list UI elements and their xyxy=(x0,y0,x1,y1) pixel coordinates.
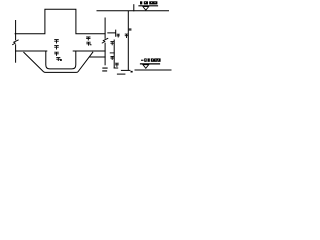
node: inner dimension foot tick xyxy=(114,67,118,69)
node: outer dimension foot dot xyxy=(131,70,132,73)
wire: top stepped profile (levee crest) xyxy=(15,9,105,34)
node: inner dimension text blob upper xyxy=(111,42,114,45)
wire: right berm ground line xyxy=(73,50,105,52)
wire: right break line (upper part) xyxy=(104,18,106,38)
wire: right water level line xyxy=(90,56,105,58)
node: leader arrow text blob xyxy=(117,34,119,37)
node: top elevation value text xyxy=(140,1,157,4)
node: top elevation triangle xyxy=(143,7,149,11)
wire: left break line (lower part) xyxy=(15,45,17,62)
wire: bottom level line xyxy=(135,69,171,71)
node: bottom elevation value text xyxy=(141,58,161,61)
node: centerline label glyph 3 xyxy=(55,52,59,55)
wire: tick on top level line xyxy=(133,5,135,11)
node: outer dimension text blob xyxy=(125,34,128,37)
node: outer dimension foot bar xyxy=(121,69,129,71)
wire: excavation slope and trench bottom xyxy=(24,52,93,72)
node: small leader arrow mark xyxy=(108,30,116,36)
node: right break symbol xyxy=(102,38,108,43)
node: centerline label glyph 1 xyxy=(55,40,59,43)
wire: right break line (lower part) xyxy=(104,43,106,65)
node: centerline label glyph 4 xyxy=(57,58,62,61)
wire: inner dimension line xyxy=(113,40,115,68)
node: bottom elevation triangle xyxy=(143,65,149,69)
node: inner dimension text blob bottom xyxy=(116,63,119,66)
node: right break line foot double dash xyxy=(103,68,107,71)
node: top elevation marker bar xyxy=(139,5,158,7)
node: inner dimension text blob lower xyxy=(111,56,114,59)
node: bottom elevation marker bar xyxy=(141,63,160,65)
node: inner dimension side dash xyxy=(110,52,114,54)
wire: left break line (upper part) xyxy=(15,21,17,40)
node: right label glyph 2 xyxy=(87,42,91,45)
node: U-flume cross-section xyxy=(46,51,76,69)
node: right label glyph 1 xyxy=(87,37,90,40)
node: centerline label glyph 2 xyxy=(55,46,59,49)
wire: top level leader line xyxy=(97,10,169,12)
wire: left berm ground line xyxy=(16,50,47,52)
node: left break symbol xyxy=(13,40,19,45)
node: outer dimension lower dash xyxy=(117,73,125,75)
node: outer dimension nub xyxy=(129,29,131,30)
wire: outer dimension line xyxy=(127,11,129,70)
